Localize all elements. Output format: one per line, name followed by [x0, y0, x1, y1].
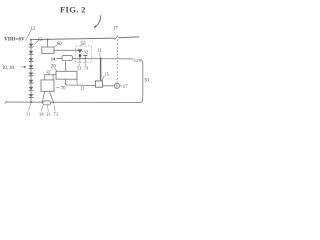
10,40 arrow: [21, 66, 25, 68]
26 leader: [41, 105, 43, 111]
51 label leader: [85, 64, 88, 66]
capacitor 51 bar: [84, 54, 88, 57]
svg-text:21: 21: [80, 85, 84, 90]
capacitor 51 stem: [84, 56, 86, 64]
junction dot: [79, 54, 81, 56]
wire 15 to lamp 17: [102, 85, 114, 87]
panel 30 right edge: [138, 60, 142, 103]
LED D4: [29, 65, 34, 69]
svg-text:10, 40: 10, 40: [2, 66, 15, 71]
dashed box 50: [76, 46, 92, 62]
junction at rail: [30, 39, 32, 41]
svg-text:17: 17: [123, 85, 128, 90]
svg-text:70: 70: [61, 87, 66, 92]
lamp 17 inner bar: [116, 83, 118, 88]
LED D2: [29, 51, 34, 55]
lamp 17 circle: [114, 83, 119, 88]
11 leader: [28, 103, 30, 111]
diode 53: [78, 55, 82, 58]
junction dot right: [53, 101, 55, 103]
figure designator 1 arrow: [96, 15, 101, 26]
11 leader: [99, 53, 100, 57]
53 label leader: [78, 64, 81, 66]
junction dot: [84, 58, 86, 60]
wire to part 15: [66, 84, 96, 86]
leg left of 70: [42, 91, 44, 102]
LED D7: [29, 87, 34, 91]
svg-text:60: 60: [57, 42, 62, 47]
svg-text:53: 53: [77, 66, 82, 71]
resistor 14 (pill): [62, 56, 72, 61]
svg-text:17: 17: [113, 26, 118, 31]
svg-text:FIG. 2: FIG. 2: [60, 4, 86, 14]
13 leader: [34, 41, 38, 45]
thick wire down to part 15: [100, 59, 102, 81]
stub block20 corner down: [76, 79, 78, 85]
bottom return line: [6, 101, 139, 103]
LED D6: [29, 80, 34, 84]
node 12 leader: [26, 30, 32, 41]
21 leader: [47, 73, 49, 75]
block 60: [42, 47, 54, 54]
21 leader: [47, 105, 48, 111]
svg-text:50: 50: [81, 42, 86, 47]
73 leader: [54, 105, 55, 112]
52 label leader: [82, 51, 83, 53]
svg-text:VDD=6V: VDD=6V: [4, 37, 25, 42]
LED D1: [29, 44, 34, 48]
stub below node: [79, 58, 81, 63]
svg-text:26: 26: [39, 111, 44, 116]
LED D8: [29, 94, 34, 98]
svg-text:11: 11: [26, 111, 31, 116]
part 15 square: [95, 81, 102, 87]
junction dot: [47, 38, 49, 40]
top supply rail (right segment): [118, 36, 139, 39]
svg-text:21: 21: [46, 69, 51, 74]
junction dot LED string: [30, 101, 32, 103]
wire block20 down: [65, 79, 67, 85]
svg-text:21: 21: [46, 111, 51, 116]
LED D3: [29, 58, 34, 62]
staple right leg: [52, 75, 54, 80]
staple wire to block20: [45, 75, 56, 80]
zener 52: [78, 49, 82, 53]
15 leader: [102, 76, 104, 81]
LED D5: [29, 73, 34, 77]
wire pill to block 20: [65, 61, 67, 71]
left end tick: [5, 101, 8, 104]
svg-text:12: 12: [31, 27, 36, 32]
50 leader: [80, 45, 82, 46]
wire rail to block 60: [47, 39, 49, 47]
60 leader: [54, 45, 57, 47]
leg right of 70: [49, 91, 53, 102]
wire block60 to zener: [54, 49, 80, 51]
part 70 square: [41, 80, 54, 91]
rail break tick: [115, 36, 118, 40]
junction dot left: [41, 101, 43, 103]
block 20: [56, 71, 77, 79]
element 26 pill: [43, 101, 51, 105]
svg-text:13: 13: [38, 38, 43, 43]
svg-text:30: 30: [144, 78, 149, 83]
31 leader: [81, 85, 83, 86]
17 label leader: [120, 85, 122, 87]
node line B wire: [56, 57, 133, 60]
70 tilde leader: [56, 86, 60, 89]
svg-text:52: 52: [84, 50, 89, 55]
svg-text:15: 15: [104, 72, 109, 77]
top supply rail (left segment): [30, 38, 115, 40]
junction dot node 11: [100, 58, 102, 60]
dashed connection line to lamp 17: [116, 39, 118, 83]
svg-text:12V: 12V: [134, 58, 143, 63]
20 leader: [54, 68, 57, 72]
svg-text:14: 14: [51, 57, 56, 62]
svg-text:73: 73: [53, 111, 58, 116]
svg-text:51: 51: [84, 66, 88, 71]
LED string wire: [30, 40, 32, 103]
